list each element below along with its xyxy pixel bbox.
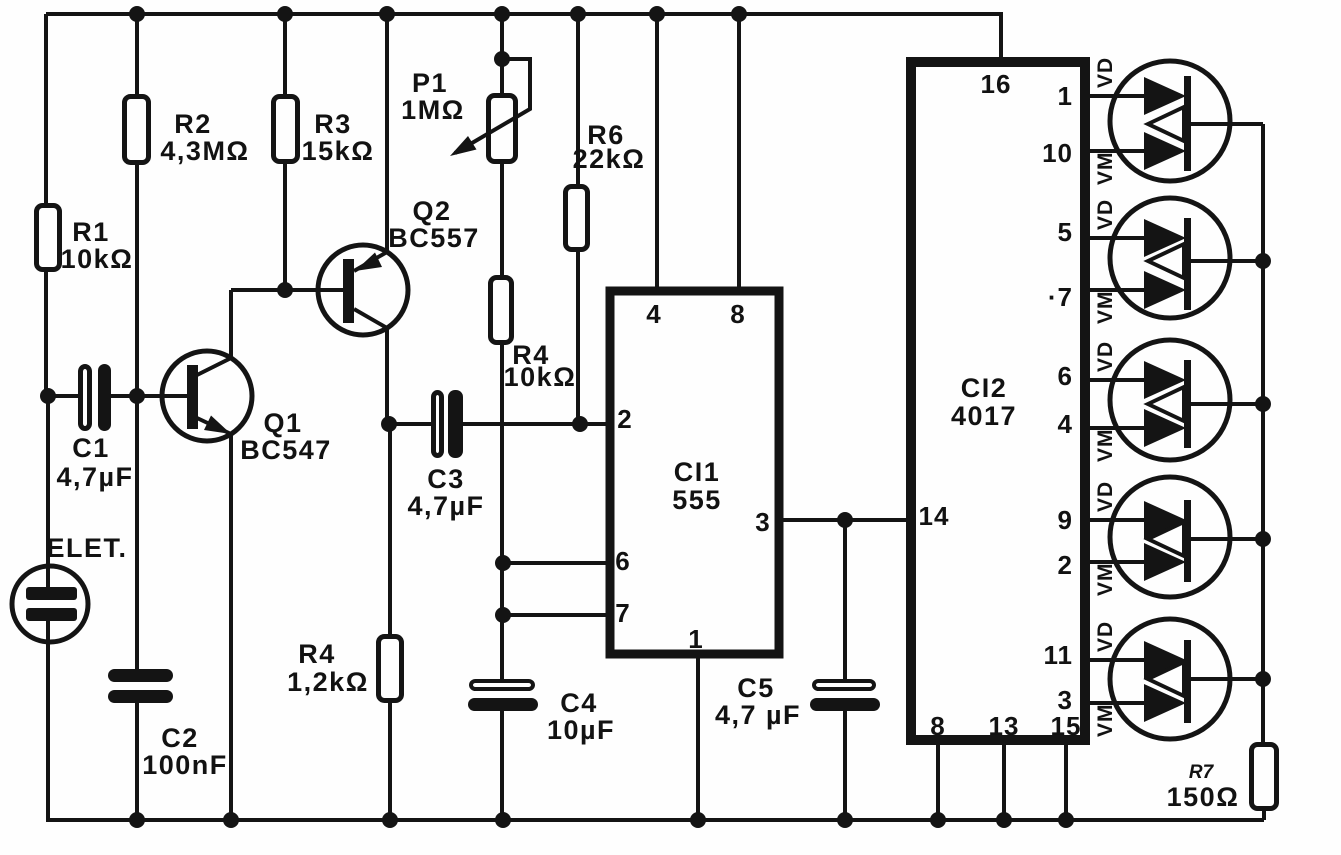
notch triangle pair 3: [1148, 387, 1184, 421]
node ground 555 pin1: [690, 812, 706, 828]
node pin 6 tap: [495, 555, 511, 571]
node R3 / Q2 base: [277, 282, 293, 298]
wire cathode 1 to bus: [1191, 122, 1263, 126]
wire Q1 emitter down: [197, 418, 231, 820]
potentiometer P1: [401, 59, 530, 162]
capacitor C5: [715, 673, 880, 730]
node top rail R2: [129, 6, 145, 22]
svg-text:9: 9: [1058, 505, 1073, 535]
wire 555 pin 6: [502, 561, 610, 565]
svg-text:2: 2: [617, 404, 632, 434]
wire P1 / R4 10k / C4 vertical: [500, 14, 504, 820]
svg-text:VD: VD: [1094, 199, 1117, 230]
resistor R2: [125, 97, 250, 167]
node top rail P1: [494, 6, 510, 22]
LED pair 3 (pins 6,4): [1090, 340, 1263, 462]
cathode bar pair 2: [1184, 218, 1191, 310]
svg-text:C1: C1: [72, 433, 110, 463]
transistor Q1 BC547: [162, 351, 332, 465]
svg-text:R2: R2: [174, 109, 212, 139]
node pin 7 tap: [495, 607, 511, 623]
wire VM4 anode: [1090, 560, 1146, 564]
node top rail R6: [570, 6, 586, 22]
svg-text:R1: R1: [72, 217, 110, 247]
svg-text:1MΩ: 1MΩ: [401, 95, 465, 125]
wire R6 branch vertical: [576, 14, 580, 424]
wire cathode 5 to bus: [1191, 677, 1263, 681]
wire top supply rail: [46, 14, 1001, 62]
cathode bar pair 1: [1184, 76, 1191, 171]
cathode bar pair 5: [1184, 640, 1191, 723]
capacitor C2: [108, 669, 228, 780]
svg-text:4,7µF: 4,7µF: [407, 491, 484, 521]
node ground CI2 pin13: [996, 812, 1012, 828]
svg-text:14: 14: [919, 501, 950, 531]
LED VM3: [1144, 409, 1186, 447]
notch triangle pair 2: [1148, 244, 1184, 278]
svg-text:4: 4: [1058, 409, 1073, 439]
svg-text:VM: VM: [1094, 152, 1117, 186]
svg-text:100nF: 100nF: [142, 750, 228, 780]
capacitor C3: [407, 390, 484, 521]
svg-text:7: 7: [615, 598, 630, 628]
LED VD3: [1144, 361, 1186, 399]
capacitor C1: [56, 364, 133, 492]
wire R7 to ground rail: [1262, 811, 1266, 820]
svg-text:1: 1: [688, 624, 703, 654]
wire VD3 anode: [1090, 378, 1146, 382]
svg-text:VM: VM: [1094, 291, 1117, 325]
svg-text:VM: VM: [1094, 429, 1117, 463]
wire node y290 (Q1 collector to Q2 base): [231, 288, 343, 292]
svg-text:VM: VM: [1094, 563, 1117, 597]
LED VD5: [1144, 641, 1186, 679]
svg-text:VD: VD: [1094, 621, 1117, 652]
svg-text:8: 8: [730, 299, 745, 329]
wire LED common bus: [1261, 124, 1265, 742]
svg-text:Q2: Q2: [412, 196, 451, 226]
wire CI2 pin 8 to ground: [936, 741, 940, 820]
node bus G3: [1255, 396, 1271, 412]
wire cathode 2 to bus: [1191, 259, 1263, 263]
node mic / C1: [40, 388, 56, 404]
node ground CI2 pin8: [930, 812, 946, 828]
svg-text:R3: R3: [314, 109, 352, 139]
svg-text:6: 6: [615, 546, 630, 576]
wire cathode 3 to bus: [1191, 402, 1263, 406]
resistor R3: [274, 97, 375, 167]
LED VM2: [1144, 271, 1186, 309]
LED pair 1 (pins 1,10): [1090, 57, 1263, 185]
LED VM4: [1144, 543, 1186, 581]
svg-text:Q1: Q1: [263, 408, 302, 438]
svg-text:555: 555: [672, 485, 722, 515]
svg-text:10: 10: [1042, 138, 1073, 168]
svg-text:3: 3: [1058, 685, 1073, 715]
wire VD4 anode: [1090, 518, 1146, 522]
svg-text:16: 16: [981, 69, 1012, 99]
svg-text:4,7 µF: 4,7 µF: [715, 700, 801, 730]
node Q2 collector / C3 / R4: [381, 416, 397, 432]
node P1 wiper tap: [494, 51, 510, 67]
resistor R4 10k: [491, 278, 577, 393]
svg-text:4: 4: [646, 299, 661, 329]
svg-text:R4: R4: [298, 639, 336, 669]
node top rail R3: [277, 6, 293, 22]
svg-text:CI1: CI1: [674, 457, 721, 487]
wire cathode 4 to bus: [1191, 537, 1263, 541]
svg-text:CI2: CI2: [961, 373, 1008, 403]
svg-text:4017: 4017: [951, 401, 1017, 431]
node top rail 555 pin8: [731, 6, 747, 22]
node ground CI2 pin15: [1058, 812, 1074, 828]
wire Q2 collector down: [354, 309, 387, 424]
LED VD4: [1144, 501, 1186, 539]
svg-text:VD: VD: [1094, 57, 1117, 88]
LED pair 2 (pins 5,7): [1090, 198, 1263, 324]
wire CI2 pin 13 to ground: [1002, 741, 1006, 820]
svg-text:BC557: BC557: [388, 223, 480, 253]
svg-text:R7: R7: [1189, 762, 1215, 783]
node bus G5: [1255, 671, 1271, 687]
wire Q2 emitter to rail: [354, 14, 387, 271]
svg-text:ELET.: ELET.: [46, 533, 127, 563]
wire VM5 anode: [1090, 701, 1146, 705]
svg-text:·7: ·7: [1048, 282, 1073, 312]
wire 555 pin 8: [737, 14, 741, 291]
node ground C5: [837, 812, 853, 828]
LED VD2: [1144, 219, 1186, 257]
wire VM2 anode: [1090, 288, 1146, 292]
resistor R6: [566, 120, 646, 250]
wire R3 branch vertical: [283, 14, 287, 290]
node ground C4: [495, 812, 511, 828]
electret microphone ELET.: [12, 533, 128, 642]
svg-text:11: 11: [1044, 640, 1074, 670]
resistor R7: [1167, 745, 1277, 813]
wire 555 pin 7: [502, 613, 610, 617]
LED VM1: [1144, 132, 1186, 170]
node bus G2: [1255, 253, 1271, 269]
svg-text:C3: C3: [427, 464, 465, 494]
svg-text:3: 3: [755, 507, 770, 537]
cathode bar pair 4: [1184, 500, 1191, 582]
svg-text:4,7µF: 4,7µF: [56, 462, 133, 492]
svg-text:VD: VD: [1094, 341, 1117, 372]
wire VM1 anode: [1090, 149, 1146, 153]
wire 555 pin 1 to ground: [696, 654, 700, 820]
svg-text:10kΩ: 10kΩ: [61, 244, 134, 274]
wire R4 1,2k branch: [388, 424, 392, 820]
wire VM3 anode: [1090, 426, 1146, 430]
svg-text:10kΩ: 10kΩ: [504, 362, 577, 392]
wire C5 branch: [843, 520, 847, 820]
svg-text:6: 6: [1058, 361, 1073, 391]
svg-text:10µF: 10µF: [547, 715, 615, 745]
wire VD1 anode: [1090, 94, 1146, 98]
LED pair 4 (pins 9,2): [1090, 477, 1263, 597]
wire node y424 (C3 coupling to pin 2): [387, 422, 610, 426]
transistor Q2 BC557: [318, 196, 480, 335]
node top rail 555 pin4: [649, 6, 665, 22]
node R2 / Q1 base: [129, 388, 145, 404]
IC CI2 4017 box: [911, 62, 1085, 741]
svg-text:BC547: BC547: [240, 435, 332, 465]
svg-text:P1: P1: [412, 68, 448, 98]
node R6 / pin2 wire: [572, 416, 588, 432]
notch triangle pair 4: [1148, 522, 1184, 556]
wire 555 pin 3 to CI2 pin 14: [779, 518, 911, 522]
wire left vertical (R1 / mic branch): [46, 14, 48, 820]
svg-text:VD: VD: [1094, 481, 1117, 512]
svg-text:150Ω: 150Ω: [1167, 782, 1240, 812]
LED pair 5 (pins 11,3): [1090, 619, 1263, 739]
notch triangle pair 5: [1148, 662, 1184, 696]
wire Q1 collector: [197, 290, 231, 375]
wire Q1 base / C1 wire: [48, 394, 187, 398]
wire VD2 anode: [1090, 236, 1146, 240]
svg-text:4,3MΩ: 4,3MΩ: [160, 136, 249, 166]
svg-text:15kΩ: 15kΩ: [302, 136, 375, 166]
wire R2 branch vertical: [135, 14, 139, 820]
svg-text:C4: C4: [560, 688, 598, 718]
wire VD5 anode: [1090, 658, 1146, 662]
resistor R4 1,2k: [287, 637, 401, 701]
node 555 pin3 / C5: [837, 512, 853, 528]
svg-text:8: 8: [930, 711, 945, 741]
cathode bar pair 3: [1184, 360, 1191, 448]
LED VD1: [1144, 77, 1186, 115]
wire 555 pin 4: [655, 14, 659, 291]
node ground C2: [129, 812, 145, 828]
svg-text:1,2kΩ: 1,2kΩ: [287, 667, 369, 697]
svg-text:5: 5: [1058, 217, 1073, 247]
svg-text:13: 13: [989, 711, 1020, 741]
svg-text:C2: C2: [161, 723, 199, 753]
node ground R4 1,2k: [382, 812, 398, 828]
node top rail Q2 emitter: [379, 6, 395, 22]
wire bottom ground rail: [46, 818, 1264, 822]
svg-text:C5: C5: [737, 673, 775, 703]
op-amp U1 : IC CI1 555 timer box: [610, 291, 779, 654]
wire CI2 pin 15 to ground: [1064, 741, 1068, 820]
capacitor C4: [468, 681, 615, 745]
LED VM5: [1144, 684, 1186, 722]
svg-text:22kΩ: 22kΩ: [573, 144, 646, 174]
resistor R1: [37, 206, 134, 275]
notch triangle pair 1: [1148, 107, 1184, 141]
svg-text:VM: VM: [1094, 704, 1117, 738]
svg-text:1: 1: [1058, 81, 1073, 111]
svg-text:2: 2: [1058, 550, 1073, 580]
node ground Q1 emitter: [223, 812, 239, 828]
node bus G4: [1255, 531, 1271, 547]
svg-text:15: 15: [1051, 711, 1082, 741]
